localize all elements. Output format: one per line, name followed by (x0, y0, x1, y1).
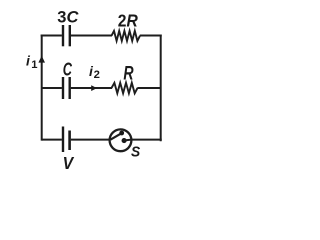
wire middle-right segment (137, 87, 160, 89)
svg-text:S: S (131, 145, 141, 161)
svg-text:2: 2 (94, 69, 100, 81)
wire stub from right contact to circle edge (124, 139, 131, 142)
wire middle segment (capacitor C to resistor R) (71, 87, 112, 89)
svg-text:V: V (63, 153, 75, 173)
svg-text:R: R (123, 64, 133, 85)
svg-text:3C: 3C (57, 9, 79, 27)
wire top-left segment (41, 35, 62, 37)
switch lever (110, 133, 121, 140)
svg-text:1: 1 (31, 59, 37, 71)
wire bottom-middle segment (battery to switch) (71, 139, 110, 141)
svg-text:2R: 2R (118, 11, 138, 31)
current arrow i1 (38, 56, 45, 63)
switch contact dot right (122, 138, 127, 143)
wire bottom-left segment (42, 139, 62, 141)
switch S (110, 129, 132, 151)
battery V plates (63, 127, 70, 153)
wire middle-left segment (42, 87, 62, 89)
wire bottom-right segment (131, 139, 162, 141)
svg-text:C: C (63, 60, 73, 80)
current arrow i2 (91, 85, 97, 91)
wire left vertical (41, 35, 43, 141)
switch contact dot upper (119, 131, 124, 136)
resistor 2R zigzag (112, 31, 141, 41)
capacitor C plates (63, 77, 70, 99)
wire top-right segment (140, 35, 162, 37)
switch circle (110, 129, 132, 151)
wire top-middle segment (71, 35, 112, 37)
svg-text:i: i (26, 53, 31, 69)
resistor R zigzag (112, 83, 138, 94)
capacitor 3C plates (63, 25, 70, 46)
wire right vertical (160, 35, 162, 142)
